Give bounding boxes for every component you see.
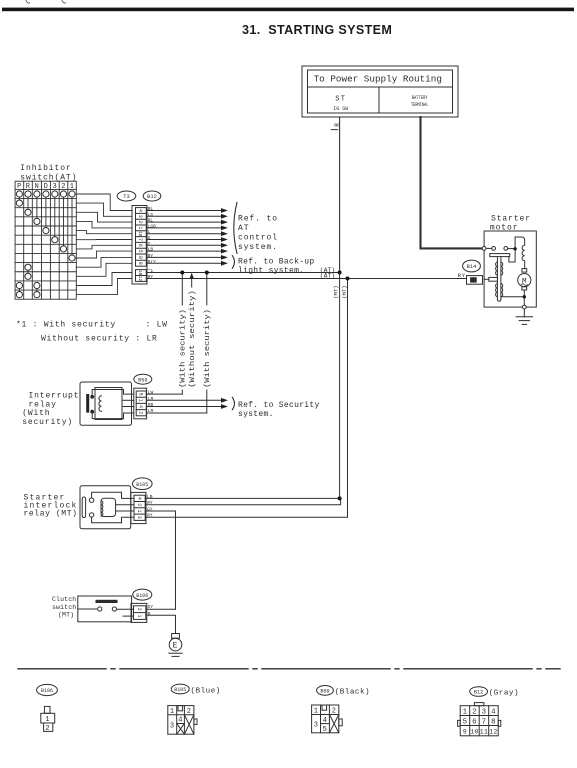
svg-text:2: 2 [187, 708, 192, 716]
svg-text:Without security : LR: Without security : LR [41, 334, 158, 343]
svg-text:(With: (With [22, 409, 50, 418]
junction dot solenoid [513, 247, 516, 250]
wire pin2 to MT junction [145, 498, 340, 504]
svg-text:5: 5 [463, 718, 468, 726]
svg-text:Clutch: Clutch [52, 596, 76, 603]
wire with-security right: interrupt relay pin 2 up to junction [206, 273, 208, 414]
svg-text:(MT): (MT) [341, 285, 348, 298]
wire pin1 down to clutch switch [145, 511, 175, 609]
without-security bypass arrow [191, 278, 193, 291]
connector pin numbers (rotated) [137, 209, 143, 282]
svg-text:LW: LW [148, 390, 154, 396]
wire contact bottom to pin 2 [92, 412, 134, 419]
legend connector B106 [41, 706, 55, 731]
motor M [518, 274, 531, 287]
svg-text:5: 5 [137, 250, 143, 253]
wire pin3 to RY MT branch [145, 516, 347, 518]
svg-text:BL: BL [148, 206, 154, 212]
svg-text:B59: B59 [138, 377, 147, 383]
svg-text:D: D [44, 183, 49, 191]
svg-text:B: B [148, 611, 151, 617]
connector oval T3 [117, 191, 161, 201]
svg-text:Starter: Starter [491, 214, 531, 223]
staircase wires grid to connector [76, 194, 132, 295]
svg-text:4: 4 [137, 405, 143, 408]
svg-text:Y: Y [148, 241, 151, 247]
wire colour labels at connector [148, 206, 157, 280]
legend oval B12 (Gray) [470, 687, 488, 697]
wire ST (R) from IG SW down [339, 117, 341, 273]
legend connector B12 [458, 703, 501, 736]
wires to security system arrows [146, 400, 222, 406]
svg-text:: LW: : LW [146, 320, 168, 329]
svg-text:RY: RY [458, 272, 466, 279]
legend oval B106 [37, 684, 58, 695]
connector B105 body [131, 492, 146, 523]
svg-text:LG: LG [148, 212, 154, 218]
starter motor M1 box [484, 231, 536, 307]
svg-text:E: E [173, 642, 179, 651]
svg-text:3: 3 [137, 215, 143, 218]
svg-text:Ref. to Back-up: Ref. to Back-up [238, 257, 315, 266]
contact link stubs [19, 197, 72, 291]
inline connector on RY wire [467, 276, 483, 285]
svg-text:LR: LR [148, 408, 154, 414]
svg-text:G: G [148, 235, 151, 241]
connector B106 body [131, 603, 147, 622]
svg-text:9: 9 [463, 729, 467, 736]
svg-text:10: 10 [470, 729, 478, 736]
connector oval B14 [463, 260, 481, 272]
plunger stem [496, 257, 498, 300]
push rod from RY terminal [489, 277, 498, 281]
actuator slot [96, 600, 118, 603]
svg-text:2: 2 [472, 709, 477, 717]
svg-text:To Power Supply Routing: To Power Supply Routing [314, 74, 442, 85]
svg-text:light system.: light system. [238, 266, 304, 275]
wire motor to ground [523, 290, 525, 295]
svg-text:4: 4 [136, 497, 142, 500]
inhibitor switch (AT) grid [15, 181, 76, 299]
svg-text:B12: B12 [474, 690, 483, 696]
svg-text:(Black): (Black) [335, 689, 370, 697]
svg-text:*1 : With security: *1 : With security [16, 320, 116, 329]
svg-text:10: 10 [137, 270, 143, 276]
svg-text:12: 12 [137, 276, 143, 282]
wire contact top to pin 4 [92, 492, 134, 498]
svg-text:4: 4 [323, 717, 328, 725]
svg-text:ST: ST [335, 95, 346, 103]
svg-text:LR: LR [148, 396, 154, 402]
interrupt relay U1 box [80, 382, 134, 425]
svg-text:31. STARTING SYSTEM: 31. STARTING SYSTEM [242, 23, 392, 37]
svg-text:RL: RL [148, 218, 154, 224]
ref to AT control system text [238, 215, 278, 253]
legend connector B59 [312, 705, 343, 733]
svg-text:1: 1 [170, 708, 175, 716]
ref to security system text [238, 401, 320, 419]
plunger spring left [496, 262, 498, 275]
svg-text:6: 6 [137, 244, 143, 247]
svg-text:RY: RY [148, 274, 154, 280]
svg-text:AT: AT [238, 224, 249, 233]
svg-text:TERMINAL: TERMINAL [411, 102, 429, 108]
svg-text:(With security): (With security) [180, 309, 188, 388]
svg-text:3: 3 [52, 183, 57, 191]
wire pin4 to MT junction [145, 498, 347, 609]
relay coil housing [95, 388, 122, 420]
svg-text:3: 3 [482, 709, 487, 717]
svg-text:12: 12 [489, 729, 497, 736]
relay contact circles [89, 498, 93, 502]
svg-text:9: 9 [137, 256, 143, 259]
svg-text:*1: *1 [148, 268, 154, 274]
solenoid coil L1 [515, 237, 525, 269]
svg-text:B59: B59 [320, 689, 329, 695]
wire (MT) right vertical to interlock relay [347, 279, 349, 518]
svg-text:BY: BY [148, 253, 154, 259]
svg-text:(Gray): (Gray) [489, 690, 519, 698]
svg-text:BrY: BrY [148, 259, 157, 265]
svg-text:control: control [238, 234, 278, 243]
interrupt relay label [22, 392, 79, 427]
legend connector B105 [168, 706, 197, 735]
contact circle right [504, 247, 508, 251]
svg-text:1: 1 [136, 614, 142, 617]
svg-text:1: 1 [70, 183, 75, 191]
svg-text:1: 1 [137, 226, 143, 229]
wire with-security left: junction to interrupt relay pin 5 [146, 273, 207, 414]
svg-text:1: 1 [463, 709, 468, 717]
junction dot motor return [523, 295, 526, 298]
svg-text:2: 2 [137, 411, 143, 414]
svg-text:1: 1 [136, 509, 142, 512]
svg-text:7: 7 [482, 718, 487, 726]
contact circle left [492, 247, 496, 251]
svg-text:1: 1 [137, 399, 143, 402]
svg-text:2: 2 [136, 608, 142, 611]
wire battery terminal (thick) to starter [421, 117, 482, 248]
page header rule [2, 8, 574, 12]
ref arrows to AT control system [146, 211, 222, 264]
label (Without security) middle [188, 288, 195, 390]
connector oval B59 [134, 374, 152, 384]
svg-text:RB: RB [148, 402, 154, 408]
svg-text:8: 8 [137, 262, 143, 265]
ground point E [169, 634, 182, 657]
B59 wire labels [148, 390, 154, 415]
svg-text:3: 3 [314, 722, 319, 730]
svg-text:LB: LB [148, 247, 154, 253]
svg-text:P: P [17, 183, 22, 191]
solenoid plunger T bar [484, 251, 515, 302]
svg-text:5: 5 [323, 726, 328, 734]
plunger spring right [501, 262, 503, 275]
motor brush block top [522, 269, 527, 273]
wire RY from pin 12 to starter motor [146, 278, 466, 280]
svg-text:(MT): (MT) [332, 285, 339, 298]
header text fragment (cut-off descenders) [26, 1, 66, 4]
B59 pin numbers [137, 393, 143, 415]
svg-text:T3: T3 [123, 194, 129, 200]
svg-text:relay: relay [29, 400, 57, 409]
junction dot on *1 wire (left) [180, 271, 184, 275]
svg-text:LGB: LGB [148, 223, 157, 229]
svg-text:10: 10 [137, 231, 143, 237]
svg-text:7: 7 [137, 238, 143, 241]
svg-text:B14: B14 [467, 264, 477, 270]
B105 wire labels [147, 494, 153, 519]
clutch switch S1 box [78, 596, 134, 622]
relay coil [99, 396, 102, 412]
svg-text:BATTERY: BATTERY [412, 95, 428, 101]
ground [516, 309, 532, 324]
connector T3/B12 body [132, 206, 147, 285]
svg-text:B106: B106 [41, 688, 53, 694]
svg-text:B12: B12 [147, 194, 157, 200]
junction dot B: RY wire branch [346, 277, 350, 281]
svg-text:4: 4 [491, 709, 496, 717]
svg-text:8: 8 [491, 718, 496, 726]
svg-text:IG SW: IG SW [333, 106, 348, 112]
relay contact dots [90, 395, 94, 399]
wire B106 pin2 to junction column [147, 608, 176, 610]
wire contact bottom to pin 3 [92, 517, 134, 523]
relay contact bar [86, 394, 89, 413]
wire *1 from pin 11 to junction A [146, 273, 466, 279]
connector oval B106 [133, 589, 152, 600]
svg-text:4: 4 [178, 717, 183, 725]
switch contact circles [16, 191, 75, 298]
wire coil to pin 2 [116, 504, 134, 506]
junction dot interlock [338, 496, 342, 500]
wire plunger to motor return [501, 296, 523, 298]
svg-text:N: N [35, 183, 40, 191]
connector oval B105 [133, 478, 153, 490]
connector B59 body [134, 388, 147, 419]
svg-text:Ref. to Security: Ref. to Security [238, 401, 320, 410]
junction dot A: ST wire meets *1 wire [338, 271, 342, 275]
svg-text:2: 2 [136, 503, 142, 506]
svg-text:1: 1 [314, 707, 319, 715]
svg-text:(MT): (MT) [58, 611, 74, 618]
svg-text:2: 2 [45, 725, 50, 733]
relay contact slot [82, 497, 85, 518]
svg-text:B106: B106 [136, 593, 148, 599]
svg-text:3: 3 [136, 516, 142, 519]
junction dot on *1 wire (right) [205, 271, 209, 275]
battery terminal circle [482, 247, 486, 251]
svg-text:R: R [26, 183, 31, 191]
wire contact to solenoid node [508, 248, 515, 250]
wire coil to pin 4 [122, 406, 134, 408]
svg-text:relay (MT): relay (MT) [24, 510, 78, 519]
brace for AT group [234, 203, 237, 254]
ref to back-up light system text [238, 257, 315, 275]
wire (MT) left vertical to interlock relay [339, 273, 341, 499]
label (With security) right [203, 306, 210, 390]
svg-text:switch: switch [52, 604, 76, 611]
svg-text:5: 5 [137, 393, 143, 396]
brace for back-up group [232, 256, 234, 269]
wire B106 pin1 to ground E [147, 615, 176, 633]
svg-text:2: 2 [332, 707, 337, 715]
svg-text:R: R [334, 123, 341, 127]
svg-text:4: 4 [137, 209, 143, 212]
svg-text:2: 2 [137, 221, 143, 224]
switch wire and contacts [78, 608, 97, 610]
svg-text:2: 2 [61, 183, 66, 191]
svg-text:(Without security): (Without security) [189, 290, 197, 388]
wire coil to pin 1 [116, 510, 134, 512]
svg-text:1: 1 [45, 716, 50, 724]
motor brush block bottom [522, 287, 527, 290]
legend oval B105 (Blue) [171, 684, 189, 694]
terminal circle bottom [522, 305, 526, 309]
svg-text:B105: B105 [174, 687, 186, 693]
wire coil to pin 1 [122, 399, 134, 401]
svg-text:6: 6 [472, 718, 477, 726]
svg-text:(Blue): (Blue) [191, 687, 221, 695]
svg-text:11: 11 [480, 729, 488, 736]
legend oval B59 (Black) [317, 686, 334, 696]
clutch switch label [52, 596, 76, 619]
note *1 legend [16, 320, 168, 343]
wire contact top to pin 5 [92, 390, 134, 397]
svg-text:Inhibitor: Inhibitor [20, 164, 71, 173]
starter interlock relay U2 box [80, 486, 134, 529]
svg-text:B105: B105 [136, 482, 148, 488]
connector oval B12 [143, 191, 161, 201]
svg-text:(AT): (AT) [320, 273, 336, 280]
svg-text:Ref. to: Ref. to [238, 215, 278, 224]
B105 pin numbers [136, 497, 142, 519]
brace security group [232, 397, 234, 409]
svg-text:3: 3 [170, 723, 175, 731]
svg-text:L: L [148, 229, 151, 235]
power supply routing box [302, 66, 458, 117]
svg-text:Interrupt: Interrupt [29, 392, 80, 401]
svg-text:system.: system. [238, 243, 278, 252]
footer separator (dash-dot rule) [18, 668, 560, 670]
starter interlock relay label [24, 494, 78, 519]
relay coil [101, 498, 116, 516]
svg-text:system.: system. [238, 410, 274, 419]
starter motor label [490, 214, 531, 232]
label (With security) left [179, 306, 186, 390]
svg-text:(With security): (With security) [204, 309, 212, 388]
svg-text:security): security) [22, 418, 73, 427]
svg-text:GY: GY [147, 506, 153, 512]
